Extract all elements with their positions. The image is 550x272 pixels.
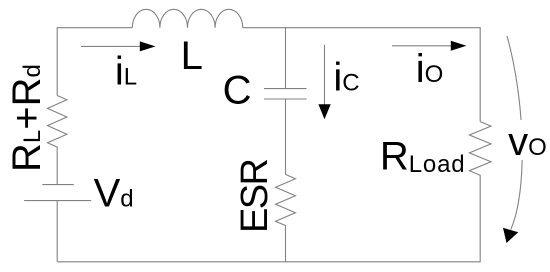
svg-text:L: L <box>181 34 203 78</box>
svg-text:ESR: ESR <box>234 160 276 233</box>
svg-text:C: C <box>223 69 252 113</box>
svg-text:RL+Rd: RL+Rd <box>5 64 49 172</box>
